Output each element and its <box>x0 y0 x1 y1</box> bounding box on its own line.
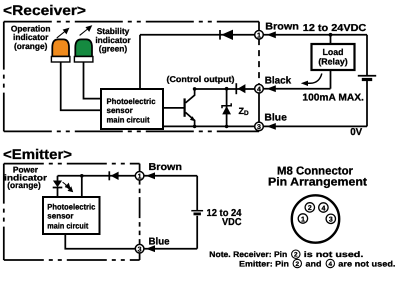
svg-text:sensor: sensor <box>107 106 133 115</box>
LED1 arrow <box>57 29 69 38</box>
svg-text:1: 1 <box>301 216 305 223</box>
svg-text:1: 1 <box>138 174 142 181</box>
svg-text:2: 2 <box>308 205 312 212</box>
svg-text:Blue: Blue <box>264 113 287 124</box>
svg-text:Photoelectric: Photoelectric <box>107 97 157 106</box>
wire pin1 emitter to battery <box>144 175 197 177</box>
wire emitter to pin3 <box>163 125 255 127</box>
svg-text:is not used.: is not used. <box>304 250 364 259</box>
emitter top wire <box>58 175 136 177</box>
LED D3 arrows <box>63 182 73 192</box>
svg-text:100mA MAX.: 100mA MAX. <box>302 92 364 103</box>
curved arrow <box>307 74 322 84</box>
svg-text:and: and <box>306 259 322 268</box>
M8 connector body <box>292 195 339 242</box>
stability indicator label <box>95 26 131 53</box>
svg-text:0V: 0V <box>350 127 362 138</box>
zener diode ZD <box>222 89 231 126</box>
svg-text:3: 3 <box>138 247 142 254</box>
LED2 arrow <box>80 26 92 35</box>
wire LED2 to main circuit box <box>84 62 102 99</box>
emitter enclosure dashed border <box>4 164 140 260</box>
pin 3 receiver <box>255 122 264 131</box>
wire top rail to box <box>139 35 141 89</box>
svg-text:Black: Black <box>265 75 292 86</box>
wire box to pin3 emitter <box>65 234 135 249</box>
LED2 green stability indicator <box>75 39 92 56</box>
wire collector to pin4 <box>195 88 255 90</box>
wire load to black wire <box>330 70 332 89</box>
battery B1 <box>358 35 376 127</box>
receiver enclosure dashed border <box>4 22 259 132</box>
svg-text:Note. Receiver: Pin: Note. Receiver: Pin <box>209 250 287 259</box>
operation indicator label <box>11 23 51 50</box>
power indicator label <box>4 165 48 191</box>
wire junction to box <box>81 176 83 197</box>
wire to load <box>330 35 332 44</box>
svg-text:3: 3 <box>329 217 333 224</box>
svg-text:4: 4 <box>329 261 333 268</box>
svg-text:(Relay): (Relay) <box>318 57 347 67</box>
LED1 orange operation indicator <box>52 39 69 56</box>
svg-text:1: 1 <box>257 33 261 40</box>
LED D3 power indicator <box>53 176 63 197</box>
node zener top junction <box>225 87 229 91</box>
wire pin3 to 0V rail <box>263 125 367 127</box>
receiver main circuit box U1 <box>101 89 163 129</box>
battery B2 <box>191 176 203 249</box>
svg-text:sensor: sensor <box>47 212 73 221</box>
node zener bottom junction <box>225 125 229 129</box>
connector pin 1 <box>298 214 307 223</box>
emitter main circuit box U2 <box>43 197 100 234</box>
connector pin 4 <box>319 203 328 212</box>
wire pin4 to load <box>263 88 330 90</box>
svg-text:12 to 24VDC: 12 to 24VDC <box>303 23 367 34</box>
pin 1 receiver <box>255 31 264 40</box>
svg-text:(Control output): (Control output) <box>167 74 235 84</box>
wire brown top <box>140 34 255 36</box>
pin 3 emitter <box>135 244 144 253</box>
svg-text:<Emitter>: <Emitter> <box>3 146 72 162</box>
load relay box <box>312 44 355 70</box>
pin 1 emitter <box>135 172 144 181</box>
wire pin1 to supply rail <box>263 34 367 36</box>
svg-text:Blue: Blue <box>149 236 170 247</box>
node collector junction <box>193 87 197 91</box>
svg-text:VDC: VDC <box>222 217 242 228</box>
node junction <box>80 174 84 178</box>
svg-text:2: 2 <box>294 252 298 259</box>
svg-text:are not used.: are not used. <box>338 259 395 268</box>
svg-text:Load: Load <box>322 47 343 57</box>
svg-text:(green): (green) <box>99 44 128 54</box>
connector pin 2 <box>305 203 314 212</box>
node emitter junction <box>193 125 197 129</box>
svg-text:<Receiver>: <Receiver> <box>3 2 86 18</box>
svg-text:Photoelectric: Photoelectric <box>47 203 96 212</box>
svg-text:main circuit: main circuit <box>107 115 150 124</box>
svg-text:Brown: Brown <box>265 21 299 32</box>
svg-text:3: 3 <box>257 124 261 131</box>
svg-text:Emitter: Pin: Emitter: Pin <box>239 259 289 268</box>
svg-text:2: 2 <box>296 261 300 268</box>
svg-text:main circuit: main circuit <box>47 222 88 231</box>
connector pin 3 <box>326 214 335 223</box>
pin 4 receiver <box>255 84 264 93</box>
diode D2 on black wire <box>236 83 245 94</box>
wire LED1 to main circuit box <box>61 62 101 110</box>
svg-text:Pin Arrangement: Pin Arrangement <box>268 176 367 188</box>
wire pin3 emitter to battery <box>144 248 197 250</box>
svg-text:(orange): (orange) <box>7 180 41 190</box>
svg-text:4: 4 <box>257 87 261 94</box>
svg-text:Brown: Brown <box>149 162 183 173</box>
diode D4 on emitter brown wire <box>109 171 118 180</box>
diode D1 on brown wire <box>220 30 233 40</box>
node load branch <box>329 33 333 37</box>
svg-text:4: 4 <box>321 205 325 212</box>
svg-text:(orange): (orange) <box>14 41 48 51</box>
transistor Q1 <box>163 89 195 126</box>
